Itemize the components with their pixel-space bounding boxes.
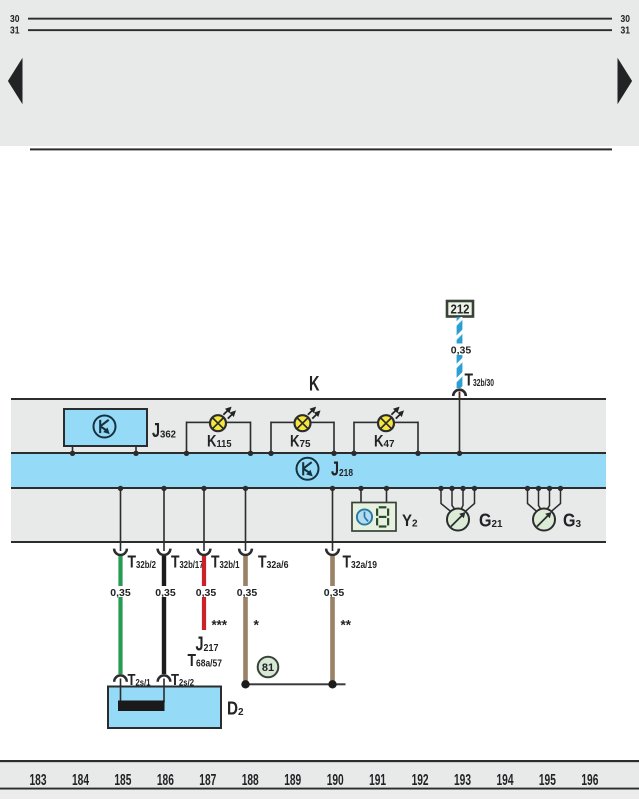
svg-text:0,35: 0,35 <box>324 587 345 599</box>
svg-text:189: 189 <box>284 772 301 789</box>
svg-text:185: 185 <box>114 772 131 789</box>
svg-text:193: 193 <box>454 772 471 789</box>
svg-text:184: 184 <box>72 772 89 789</box>
svg-text:81: 81 <box>262 662 274 674</box>
svg-text:0,35: 0,35 <box>451 344 472 356</box>
svg-text:192: 192 <box>412 772 429 789</box>
svg-text:***: *** <box>212 617 228 633</box>
svg-text:K: K <box>309 373 320 396</box>
svg-text:0,35: 0,35 <box>196 587 217 599</box>
svg-text:0,35: 0,35 <box>155 587 176 599</box>
svg-text:194: 194 <box>497 772 514 789</box>
svg-text:0,35: 0,35 <box>110 587 131 599</box>
svg-text:187: 187 <box>199 772 216 789</box>
svg-text:30: 30 <box>10 14 20 25</box>
svg-text:31: 31 <box>10 25 20 36</box>
svg-text:*: * <box>254 617 260 633</box>
svg-text:31: 31 <box>621 25 631 36</box>
svg-text:212: 212 <box>451 303 470 317</box>
svg-text:30: 30 <box>621 14 631 25</box>
svg-text:196: 196 <box>581 772 598 789</box>
svg-text:183: 183 <box>30 772 47 789</box>
svg-text:195: 195 <box>539 772 556 789</box>
svg-text:**: ** <box>341 617 352 633</box>
svg-text:186: 186 <box>157 772 174 789</box>
svg-text:190: 190 <box>327 772 344 789</box>
svg-text:191: 191 <box>369 772 386 789</box>
svg-text:188: 188 <box>242 772 259 789</box>
svg-text:0,35: 0,35 <box>237 587 258 599</box>
